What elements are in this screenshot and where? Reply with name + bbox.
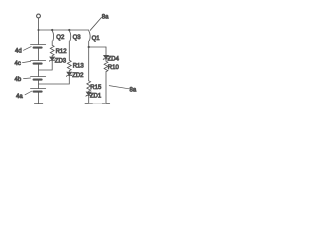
svg-text:8a: 8a: [102, 14, 109, 20]
wire junction to right column: [89, 46, 106, 48]
wire ZD2 down and left to battery tap: [39, 76, 70, 84]
node junction dot Q1 emitter: [88, 46, 90, 48]
svg-text:4a: 4a: [16, 94, 23, 100]
resistor R10: [104, 61, 108, 71]
svg-text:4d: 4d: [15, 49, 22, 55]
transistor Q3: [69, 31, 70, 41]
wire ZD3 down and left to battery tap: [39, 61, 53, 70]
wire Q2 to R12: [51, 41, 53, 45]
svg-text:R10: R10: [108, 65, 120, 71]
terminal circle (positive input terminal): [37, 14, 41, 18]
zener diode ZD4: [105, 47, 107, 55]
label 4d with leader: [24, 47, 32, 51]
wire Q3 to R13: [68, 41, 70, 60]
svg-text:ZD3: ZD3: [55, 59, 67, 65]
label 4c with leader: [23, 61, 31, 62]
leader line to node 8a top: [90, 18, 101, 31]
bottom terminal bar left: [85, 103, 92, 105]
bottom terminal bar battery: [34, 103, 42, 105]
svg-text:8a: 8a: [130, 87, 137, 93]
zener diode ZD2: [68, 71, 70, 72]
resistor R13: [67, 60, 71, 70]
svg-text:R15: R15: [90, 85, 102, 91]
svg-text:ZD4: ZD4: [108, 56, 120, 62]
label 4b with leader: [24, 77, 31, 80]
leader line to node 8a right: [109, 86, 129, 89]
resistor R15: [87, 81, 91, 91]
svg-text:4b: 4b: [15, 77, 22, 83]
battery cell 4d plates: [38, 30, 40, 45]
svg-text:Q2: Q2: [56, 35, 65, 41]
svg-text:4c: 4c: [15, 61, 21, 67]
transistor Q2: [52, 31, 53, 41]
node junction dot Q2: [51, 29, 53, 31]
svg-text:Q3: Q3: [73, 35, 82, 41]
wire ZD4 to R10: [105, 59, 107, 61]
svg-text:Q1: Q1: [92, 36, 101, 42]
wire battery bottom: [38, 93, 40, 104]
node junction dot battery top: [38, 29, 40, 31]
svg-text:ZD1: ZD1: [90, 93, 102, 99]
wire Q1 to junction: [88, 41, 90, 47]
wire terminal to top rail: [38, 18, 40, 30]
zener diode ZD3: [51, 56, 53, 57]
transistor Q1: [89, 31, 90, 41]
node junction dot Q3: [68, 29, 70, 31]
label 4a with leader: [25, 91, 32, 95]
faint bottom rail: [89, 102, 106, 104]
svg-text:R12: R12: [56, 49, 68, 55]
battery cell 4a plates: [38, 81, 40, 89]
svg-text:R13: R13: [73, 64, 85, 70]
wire ZD1 to bottom bar: [88, 96, 90, 104]
battery cell 4b plates: [38, 65, 40, 77]
bottom terminal bar right: [102, 103, 109, 105]
zener diode ZD1: [88, 90, 90, 93]
battery cell 4c plates: [38, 49, 40, 61]
svg-text:ZD2: ZD2: [72, 73, 84, 79]
wire junction down to R15: [88, 47, 90, 81]
wire R10 to bottom bar: [105, 72, 107, 104]
resistor R12: [50, 45, 54, 55]
wire top rail: [39, 29, 89, 31]
